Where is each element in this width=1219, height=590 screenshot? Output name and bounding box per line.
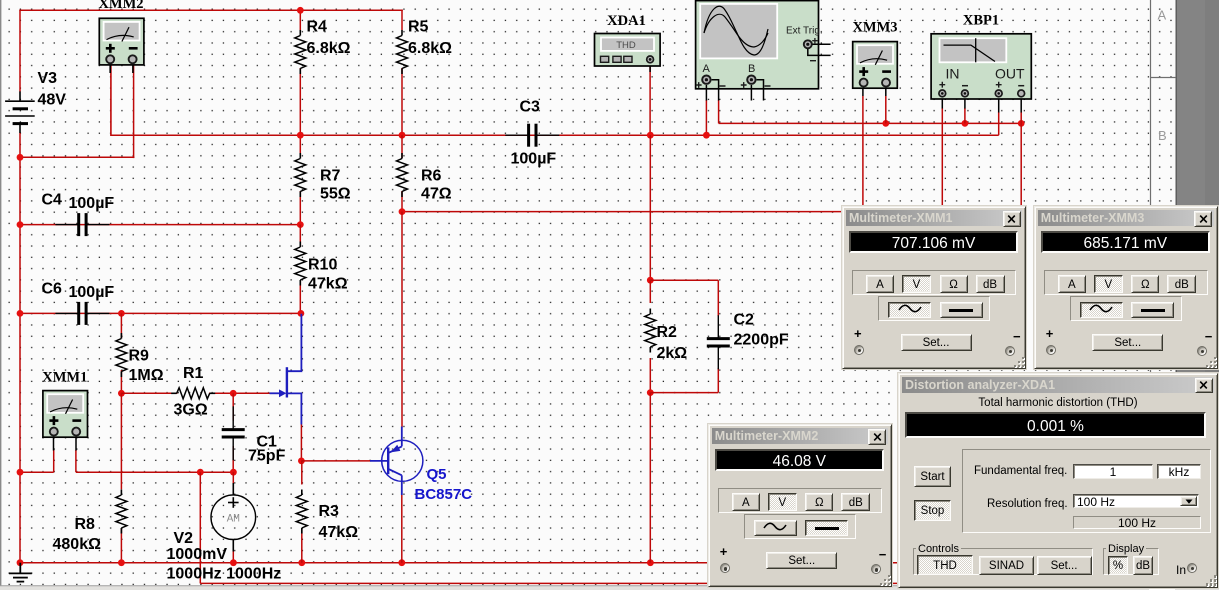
svg-text:R2: R2 xyxy=(657,324,678,341)
resistor R9 1MΩ xyxy=(116,333,127,377)
wire top feed y=10.3 xyxy=(19,9,403,11)
svg-text:75pF: 75pF xyxy=(248,448,286,465)
pin XMM2 plus stub xyxy=(109,63,111,73)
svg-text:XMM1: XMM1 xyxy=(42,370,87,386)
junction R2/C2 bottom xyxy=(647,389,654,396)
resistor R4 6.8kΩ xyxy=(295,30,306,74)
border row divider xyxy=(1151,77,1177,79)
junction R2/C2 top xyxy=(647,277,654,284)
sheet left edge xyxy=(0,0,2,590)
wire XBP1 IN- down xyxy=(964,108,966,123)
pin XMM3 plus stub xyxy=(862,86,864,97)
wire XBP1 OUT- down xyxy=(1020,112,1022,212)
transistor Q5 BC857C (blue PNP) xyxy=(370,427,423,496)
wire osc A- down xyxy=(718,100,720,123)
wire JFET source red part xyxy=(300,424,302,461)
svg-text:47kΩ: 47kΩ xyxy=(319,524,359,541)
svg-text:1000Hz 1000Hz: 1000Hz 1000Hz xyxy=(167,566,282,583)
svg-text:6.8kΩ: 6.8kΩ xyxy=(307,40,351,57)
svg-text:Q5: Q5 xyxy=(427,466,447,483)
pin XBP1 IN- stub xyxy=(964,97,966,109)
pin XMM1 plus stub xyxy=(53,435,55,451)
resistor R6 47Ω xyxy=(397,153,408,197)
junction XBP1 IN- / secondary bus xyxy=(962,120,969,127)
junction rail / Q5 collector xyxy=(398,559,405,566)
wire bus to R2 top xyxy=(649,135,651,281)
wire C1 top lead red xyxy=(232,393,234,420)
wire osc A+ down xyxy=(705,100,707,136)
svg-text:XMM2: XMM2 xyxy=(98,0,143,12)
junction R6 tap xyxy=(399,208,406,215)
wire R10 bottom lead xyxy=(299,280,301,313)
wire XBP1 OUT+ down to bus end xyxy=(998,112,1000,135)
svg-text:THD: THD xyxy=(616,40,636,51)
wire C4 bus y=224.6 xyxy=(20,224,301,226)
wire R3 bottom lead xyxy=(301,528,303,563)
wire R7 bottom lead xyxy=(299,191,301,225)
pin XMM3 minus stub xyxy=(885,86,887,97)
wire secondary bus y=123.4 xyxy=(719,122,1022,124)
wire R6 bottom to tap xyxy=(401,191,403,212)
sheet border column line xyxy=(1150,0,1152,590)
capacitor C2 2200pF xyxy=(707,315,730,369)
junction R1 / C1 top xyxy=(230,390,237,397)
pin XBP1 IN+ stub xyxy=(941,97,943,109)
transistor Q4 JFET (blue, first stage) xyxy=(270,314,302,425)
svg-text:R4: R4 xyxy=(307,19,328,36)
pin XDA1 stub xyxy=(649,63,651,72)
svg-text:1MΩ: 1MΩ xyxy=(129,367,164,384)
pin XBP1 OUT+ stub xyxy=(998,97,1000,113)
instrument icon XMM3 xyxy=(853,42,898,89)
instrument window Multimeter-XMM1 xyxy=(842,206,1026,369)
wire XMM2 plus lead down xyxy=(110,63,112,136)
wire R1 to JFET gate (red part) xyxy=(209,392,270,394)
instrument icon XMM2 xyxy=(99,18,144,65)
instrument icon XBP1 bode plotter xyxy=(931,34,1031,99)
source V2 AM 1000mV 1000Hz xyxy=(211,483,256,552)
wire Q5 collector to rail xyxy=(401,495,403,563)
wire left rail V3 to ground xyxy=(19,133,21,563)
pin XMM2 minus stub xyxy=(132,63,134,73)
svg-text:Ext Trig.: Ext Trig. xyxy=(786,26,823,37)
wire R5 bottom to bus xyxy=(401,68,403,135)
wire R9 bottom lead xyxy=(120,370,122,393)
wire C2 bottom lead red xyxy=(717,368,719,393)
junction XMM3 minus / secondary bus xyxy=(882,120,889,127)
wire V3 top (left rail upper) xyxy=(19,10,21,91)
wire XMM1 plus horizontal xyxy=(20,471,54,473)
resistor R1 3GΩ xyxy=(171,388,215,399)
wire XMM3 minus down xyxy=(885,96,887,123)
capacitor C4 100µF xyxy=(55,213,109,236)
battery V3 48V xyxy=(5,91,35,133)
junction rail / V2 xyxy=(230,559,237,566)
svg-text:100µF: 100µF xyxy=(69,195,115,212)
capacitor C6 100µF xyxy=(55,302,109,325)
svg-text:55Ω: 55Ω xyxy=(320,186,351,203)
wire R2-C2 top xyxy=(650,279,718,281)
junction left rail / C6 xyxy=(17,310,24,317)
instrument window Multimeter-XMM2 xyxy=(708,424,892,587)
svg-text:R9: R9 xyxy=(129,348,150,365)
resistor R3 47kΩ xyxy=(296,490,307,534)
svg-text:AM: AM xyxy=(227,514,240,526)
wire y=583.4 to right xyxy=(200,582,905,584)
capacitor C3 100µF xyxy=(505,124,559,147)
svg-text:C4: C4 xyxy=(42,192,63,209)
svg-text:47Ω: 47Ω xyxy=(421,186,452,203)
svg-text:C3: C3 xyxy=(520,99,541,116)
junction XMM1 bus / drop wire xyxy=(197,469,204,476)
wire XMM3 plus down xyxy=(862,96,864,212)
resistor R5 6.8kΩ xyxy=(397,30,408,74)
wire R10 top lead xyxy=(299,225,301,247)
svg-text:V2: V2 xyxy=(174,530,194,547)
instrument icon oscilloscope xyxy=(696,1,831,101)
wire R5 top lead entry xyxy=(401,10,403,31)
wire XMM1 plus vertical xyxy=(53,450,55,472)
wire R6 column down to Q5 emitter xyxy=(401,212,403,428)
instrument icon XMM1 xyxy=(43,391,88,438)
svg-text:6.8kΩ: 6.8kΩ xyxy=(408,40,452,57)
junction C6 / R9 xyxy=(118,310,125,317)
wire XDA1 lead down xyxy=(649,63,651,136)
junction R10 / JFET drain xyxy=(298,310,305,317)
wire XMM2 minus lead down xyxy=(133,63,135,158)
svg-text:XBP1: XBP1 xyxy=(963,13,999,29)
resistor R2 2kΩ xyxy=(645,309,656,353)
wire XMM1 minus bus to C1/V2 xyxy=(76,471,234,473)
junction rail / ground xyxy=(17,559,24,566)
wire R6 tap to XMM3 (y=211.6) xyxy=(402,211,863,213)
wire R2-C2 bottom xyxy=(650,392,718,394)
capacitor C1 75pF xyxy=(222,406,245,460)
wire R9 top lead xyxy=(120,313,122,338)
svg-text:A: A xyxy=(703,63,711,75)
junction XDA1 / main bus xyxy=(647,132,654,139)
wire R2 column to rail xyxy=(649,393,651,563)
junction rail / R3 xyxy=(298,559,305,566)
wire XMM1 minus vertical xyxy=(75,450,77,472)
svg-text:OUT: OUT xyxy=(995,66,1025,82)
junction R5/R6 on main bus xyxy=(399,132,406,139)
wire R3 top lead xyxy=(301,461,303,485)
wire R9-R8 column upper xyxy=(120,393,122,489)
pin XMM1 minus stub xyxy=(75,435,77,451)
workspace gray area right of sheet xyxy=(1177,0,1219,590)
junction top feed / R4 xyxy=(297,7,304,14)
svg-text:C2: C2 xyxy=(734,312,755,329)
wire main bus y135 xyxy=(111,134,999,136)
resistor R10 47kΩ xyxy=(295,242,306,286)
junction R7/R10/C4 xyxy=(297,221,304,228)
junction C1 / V2 xyxy=(230,469,237,476)
wire C2 top lead red xyxy=(717,280,719,316)
svg-text:R3: R3 xyxy=(319,503,340,520)
ground symbol xyxy=(9,563,32,582)
junction rail / R2 column xyxy=(647,559,654,566)
svg-text:47kΩ: 47kΩ xyxy=(308,276,348,293)
wire base bus to R1 xyxy=(121,392,177,394)
instrument window Multimeter-XMM3 xyxy=(1034,206,1218,369)
svg-text:R8: R8 xyxy=(75,516,96,533)
wire R4 bottom to bus xyxy=(299,68,301,135)
svg-text:R10: R10 xyxy=(308,257,337,274)
wire R4 top xyxy=(299,10,301,31)
wire R7 top lead xyxy=(299,135,301,158)
svg-text:R7: R7 xyxy=(320,168,341,185)
junction JFET source / Q5 base / R3 xyxy=(298,458,305,465)
svg-text:R6: R6 xyxy=(421,168,442,185)
wire C1 bottom to XMM1 bus xyxy=(232,446,234,472)
junction osc A+ / main bus xyxy=(703,132,710,139)
svg-text:BC857C: BC857C xyxy=(415,486,473,503)
svg-text:V3: V3 xyxy=(38,70,58,87)
wire XMM2 minus to left rail xyxy=(19,156,134,158)
wire Q5 base red part xyxy=(301,460,370,462)
svg-text:100µF: 100µF xyxy=(69,284,115,301)
wire ground rail y=562.7 xyxy=(19,562,905,564)
svg-text:C6: C6 xyxy=(42,281,63,298)
wire XBP1 IN+ down xyxy=(941,108,943,212)
junction left rail / XMM2 minus xyxy=(17,154,24,161)
wire C6 bus y=313.4 xyxy=(20,312,301,314)
junction left rail / XMM1 bus xyxy=(17,469,24,476)
junction XBP1 OUT- / secondary bus xyxy=(1018,120,1025,127)
bottom strip xyxy=(0,586,1219,590)
svg-text:R1: R1 xyxy=(183,365,204,382)
svg-text:IN: IN xyxy=(946,66,960,82)
svg-text:XMM3: XMM3 xyxy=(852,20,897,36)
wire drop x=200 down xyxy=(199,472,201,583)
junction left rail / C4 xyxy=(17,221,24,228)
wire R2 bottom lead red xyxy=(649,358,651,393)
wire R6 top lead xyxy=(401,135,403,158)
svg-text:2200pF: 2200pF xyxy=(734,332,789,349)
wire R2 top lead red xyxy=(649,280,651,303)
junction R9 / base bus xyxy=(118,390,125,397)
svg-text:480kΩ: 480kΩ xyxy=(53,536,102,553)
instrument icon XDA1 distortion analyzer xyxy=(595,34,661,67)
svg-text:3GΩ: 3GΩ xyxy=(174,402,208,419)
svg-text:R5: R5 xyxy=(408,19,429,36)
svg-text:A: A xyxy=(1158,8,1167,23)
svg-text:48V: 48V xyxy=(38,92,67,109)
svg-text:B: B xyxy=(748,63,755,75)
wire R8 bottom to rail xyxy=(120,528,122,563)
instrument window Distortion analyzer-XDA1 xyxy=(898,373,1218,588)
junction rail / R8 xyxy=(118,559,125,566)
wire V2 top lead red xyxy=(232,472,234,483)
svg-text:1000mV: 1000mV xyxy=(167,546,228,563)
resistor R7 55Ω xyxy=(295,153,306,197)
junction R4/R7 on main bus xyxy=(297,132,304,139)
svg-text:B: B xyxy=(1158,128,1167,143)
wire V2 bottom lead red xyxy=(232,551,234,563)
svg-text:2kΩ: 2kΩ xyxy=(657,345,688,362)
svg-text:XDA1: XDA1 xyxy=(607,13,646,29)
resistor R8 480k xyxy=(116,490,127,534)
pin XBP1 OUT- stub xyxy=(1020,97,1022,113)
svg-text:100µF: 100µF xyxy=(511,151,557,168)
